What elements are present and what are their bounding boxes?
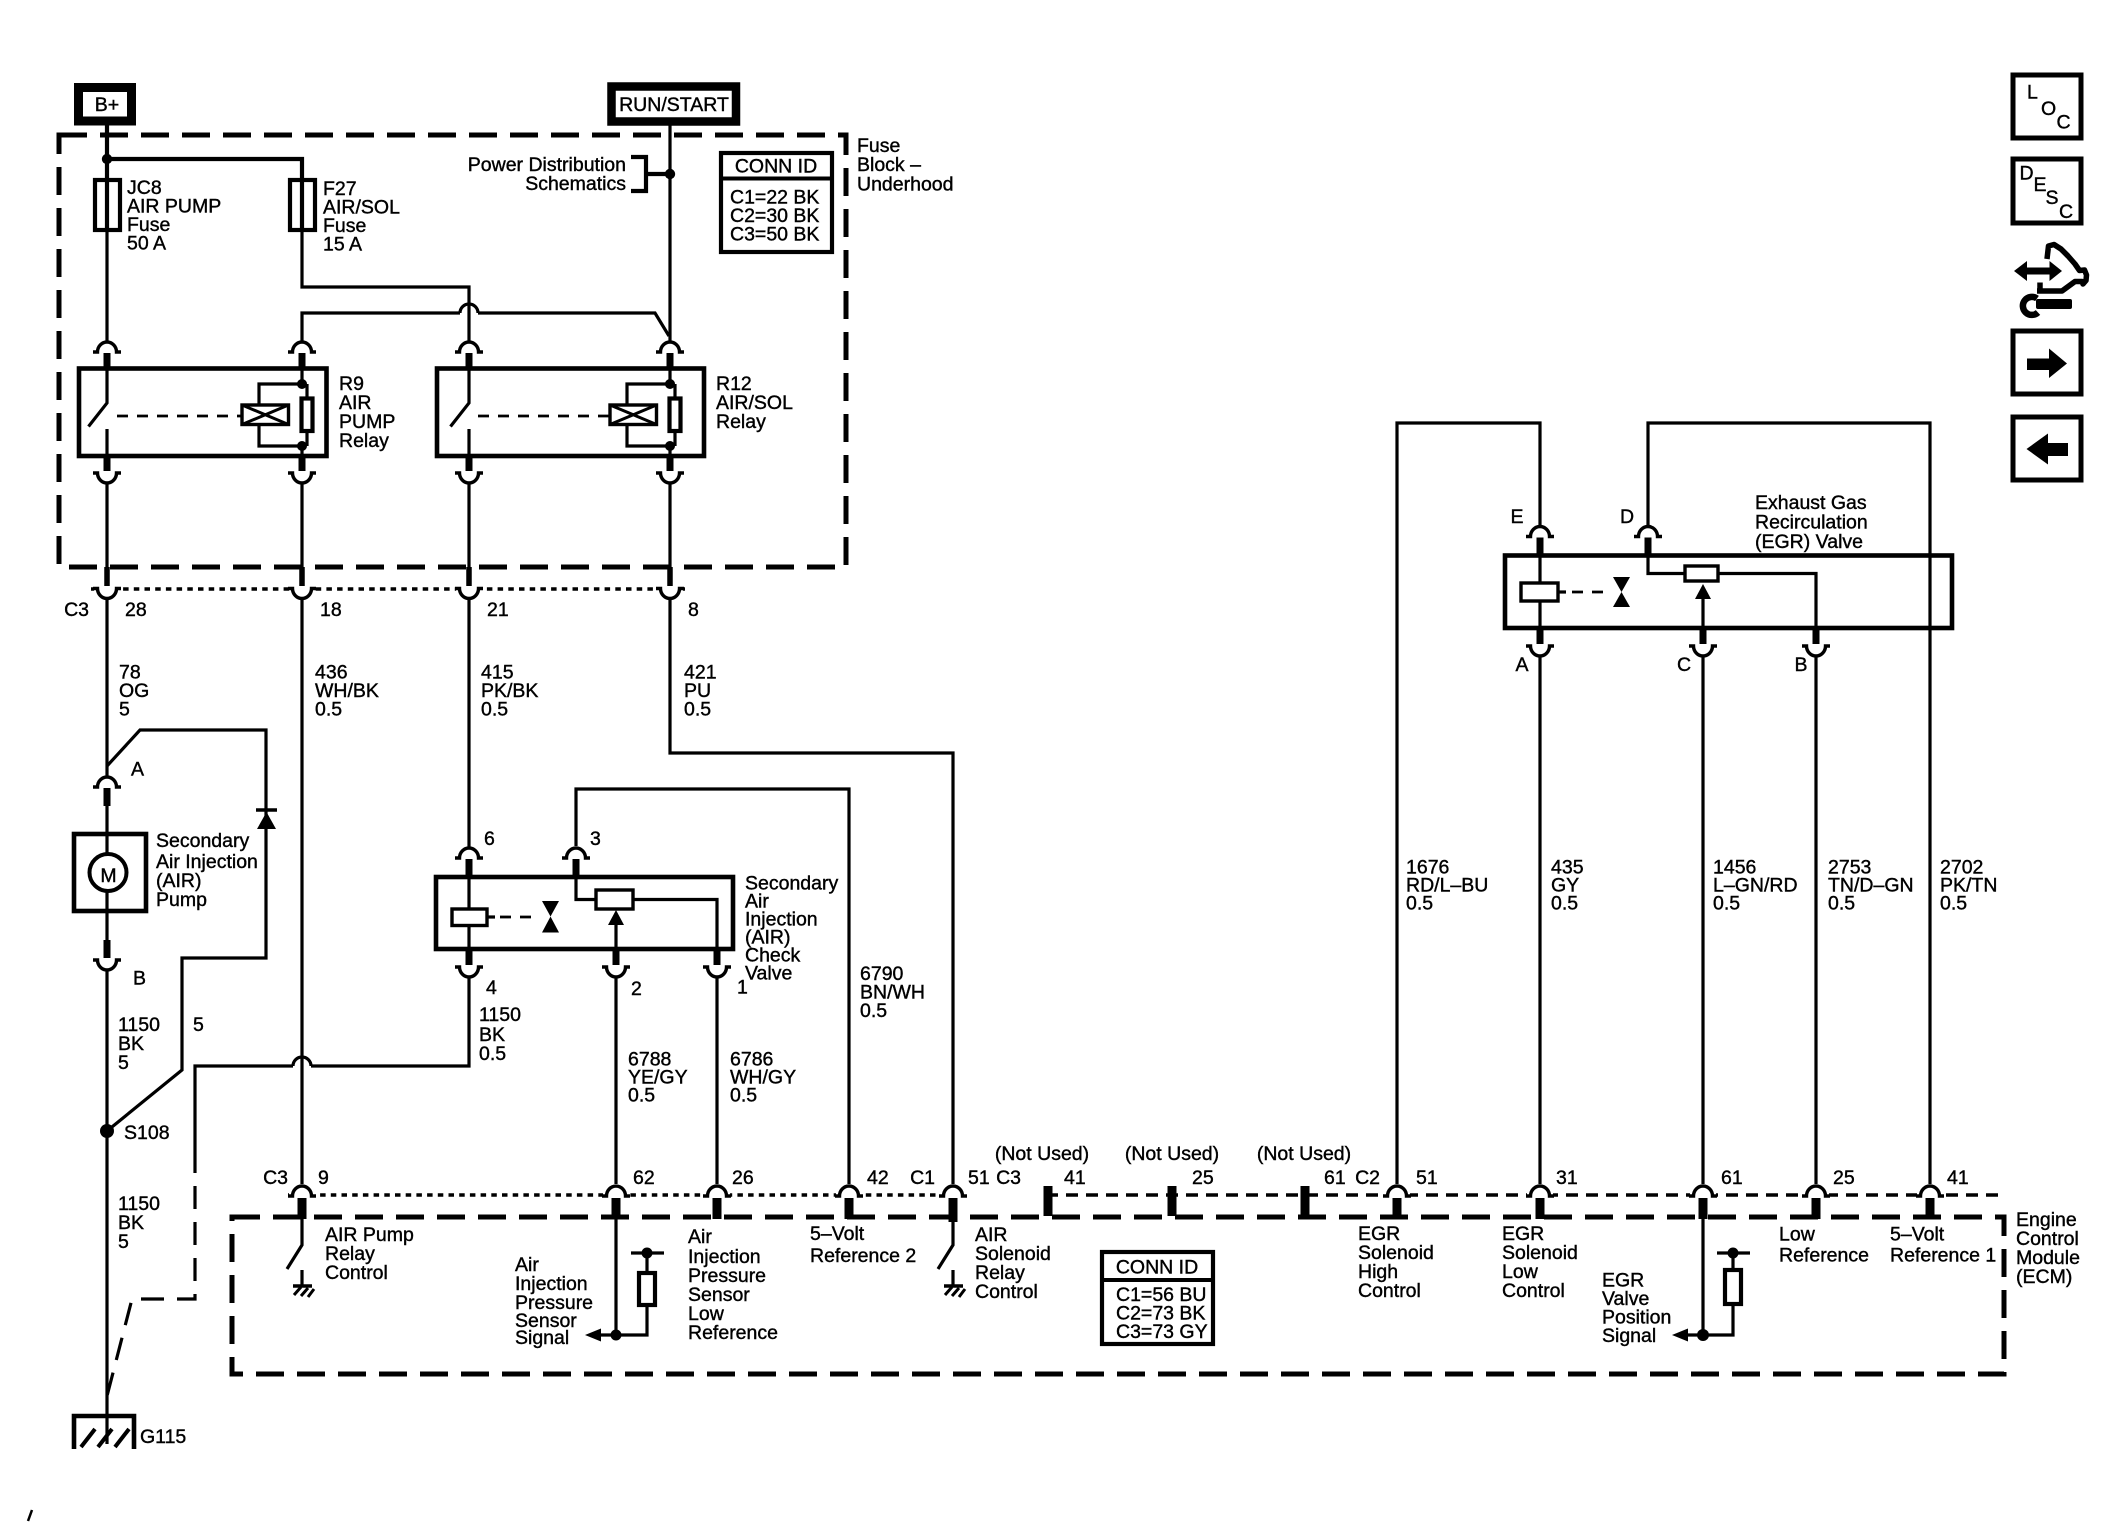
connector pin A of EGR valve (stub and cup) bbox=[1526, 628, 1554, 656]
wire label: 6790 BN/WH 0.5 bbox=[860, 963, 925, 1022]
ECM connector row dotted line bbox=[288, 1193, 965, 1197]
pin labels: C3 41 (Not Used) bbox=[995, 1143, 1089, 1189]
svg-text:0.5: 0.5 bbox=[1828, 893, 1855, 915]
connector pin R12-87 bottom left (stub and cup) bbox=[455, 456, 483, 483]
wire label: 421 PU 0.5 bbox=[684, 662, 717, 721]
svg-text:8: 8 bbox=[688, 599, 699, 621]
svg-text:Underhood: Underhood bbox=[857, 174, 954, 196]
wire label: 2753 TN/D-GN 0.5 bbox=[1828, 857, 1914, 915]
wire: 78 OG down to AIR pump pin A bbox=[105, 599, 108, 776]
svg-text:B: B bbox=[1794, 654, 1807, 676]
ECM unused pin 25 (stub) bbox=[1168, 1186, 1177, 1216]
svg-text:0.5: 0.5 bbox=[1551, 893, 1578, 915]
svg-text:C3: C3 bbox=[64, 599, 89, 621]
wire label: 1150 BK 5 (lower) bbox=[118, 1193, 160, 1253]
dashed link check valve bbox=[500, 916, 538, 919]
wire label: 435 GY 0.5 bbox=[1551, 857, 1584, 915]
connector 21 (stub and cup) bbox=[455, 567, 483, 602]
svg-text:51: 51 bbox=[968, 1167, 990, 1189]
relay R9 AIR PUMP box bbox=[79, 369, 327, 457]
svg-text:31: 31 bbox=[1556, 1167, 1578, 1189]
svg-text:Pump: Pump bbox=[156, 889, 207, 911]
svg-text:62: 62 bbox=[633, 1167, 655, 1189]
svg-text:C3: C3 bbox=[996, 1167, 1021, 1189]
svg-text:(EGR) Valve: (EGR) Valve bbox=[1755, 531, 1863, 553]
wire label: 6786 WH/GY 0.5 bbox=[730, 1049, 796, 1107]
connector C3-28 (stub and cup) bbox=[93, 567, 121, 602]
svg-text:28: 28 bbox=[125, 599, 147, 621]
svg-text:(ECM): (ECM) bbox=[2016, 1266, 2072, 1288]
splice S108 bbox=[100, 1124, 114, 1138]
svg-text:61: 61 bbox=[1721, 1167, 1743, 1189]
wire: EGR pin D up over to ECM pin 41 (2702 PK/TN) bbox=[1648, 423, 1930, 1184]
node: R9 coil junction top bbox=[297, 379, 307, 389]
node: junction power distribution tap bbox=[665, 169, 675, 179]
fuse JC8 AIR PUMP 50 A bbox=[95, 180, 120, 230]
relay coil R12 (box with X) bbox=[610, 405, 657, 425]
connector row C3 dotted line (fuse block bottom) bbox=[91, 587, 686, 591]
check valve solenoid coil bbox=[452, 877, 495, 949]
wire: ground return from check valve pin 4 (1150 BK) with hop over 436 wire bbox=[107, 978, 469, 1396]
svg-text:5: 5 bbox=[193, 1014, 204, 1036]
svg-text:Reference 1: Reference 1 bbox=[1890, 1245, 1996, 1267]
wire: continues right then diagonal to RUN/START wire bbox=[478, 313, 669, 336]
svg-text:50 A: 50 A bbox=[127, 233, 166, 255]
wire label: 1676 RD/L-BU 0.5 bbox=[1406, 857, 1488, 915]
label: Engine Control Module (ECM) bbox=[2016, 1209, 2080, 1288]
svg-text:5: 5 bbox=[118, 1231, 129, 1253]
wire label: 2702 PK/TN 0.5 bbox=[1940, 857, 1997, 915]
connector pin B of AIR pump (stub and cup) bbox=[93, 911, 121, 970]
pin label: 61 (Not Used) bbox=[1257, 1143, 1351, 1189]
svg-text:0.5: 0.5 bbox=[479, 1043, 506, 1065]
svg-text:C: C bbox=[1677, 654, 1691, 676]
svg-text:Signal: Signal bbox=[1602, 1325, 1656, 1347]
ECM internal: AIR Solenoid Relay Control driver (switch to ground) bbox=[938, 1216, 965, 1297]
svg-text:15 A: 15 A bbox=[323, 234, 362, 256]
svg-text:(Not Used): (Not Used) bbox=[1125, 1143, 1219, 1165]
valve symbol (bowtie) EGR bbox=[1613, 577, 1630, 607]
wire label: 6788 YE/GY 0.5 bbox=[628, 1049, 688, 1107]
svg-text:E: E bbox=[1510, 506, 1523, 528]
svg-text:(Not Used): (Not Used) bbox=[1257, 1143, 1351, 1165]
icon: DESC button bbox=[2013, 159, 2081, 223]
svg-text:Control: Control bbox=[1358, 1280, 1421, 1302]
connector pin 4 of check valve (stub and cup) bbox=[455, 949, 483, 977]
label: Low Reference bbox=[1779, 1224, 1869, 1267]
label: F27 AIR/SOL Fuse 15 A bbox=[323, 178, 400, 256]
svg-text:C: C bbox=[2059, 201, 2073, 223]
svg-text:61: 61 bbox=[1324, 1167, 1346, 1189]
svg-text:Air: Air bbox=[688, 1226, 712, 1248]
wire: R9-85 down to connector 18 bbox=[300, 484, 303, 568]
svg-text:A: A bbox=[1515, 654, 1528, 676]
RUN/START power terminal box bbox=[612, 87, 737, 122]
node: R9 coil junction bottom bbox=[297, 441, 307, 451]
svg-text:26: 26 bbox=[732, 1167, 754, 1189]
label: Fuse Block - Underhood bbox=[857, 135, 954, 196]
icon: vehicle double-arrow and wrench bbox=[2014, 245, 2087, 315]
switch blade R12 bbox=[451, 369, 470, 457]
internal wiring R9 coil/resistor bbox=[259, 369, 307, 457]
svg-text:D: D bbox=[1620, 506, 1634, 528]
node: R12 coil junction bottom bbox=[665, 441, 675, 451]
label: R12 AIR/SOL Relay bbox=[716, 373, 793, 433]
label: AIR Pump Relay Control bbox=[325, 1224, 414, 1284]
motor: Secondary Air Injection (AIR) Pump bbox=[74, 834, 146, 911]
wire: JC8 fuse down to R9 relay pin bbox=[105, 229, 108, 341]
ECM connector pin C3-9 (arc and stub) bbox=[288, 1186, 316, 1219]
svg-text:Schematics: Schematics bbox=[525, 173, 626, 195]
connector pin R12-85 bottom right (stub and cup) bbox=[656, 456, 684, 483]
svg-text:Control: Control bbox=[325, 1262, 388, 1284]
resistor R9 internal bbox=[302, 399, 313, 432]
wire: B+ feed down to JC8 fuse bbox=[105, 120, 109, 181]
svg-text:C: C bbox=[2057, 112, 2071, 134]
svg-text:S108: S108 bbox=[124, 1122, 170, 1144]
wire label: 415 PK/BK 0.5 bbox=[481, 662, 538, 721]
stray scan mark bottom left bbox=[28, 1510, 32, 1521]
svg-text:21: 21 bbox=[487, 599, 509, 621]
svg-text:1: 1 bbox=[737, 977, 748, 999]
svg-text:C3=73 GY: C3=73 GY bbox=[1116, 1321, 1208, 1343]
wire: EGR pin C down to ECM pin 61 (1456 L-GN/RD) bbox=[1701, 657, 1704, 1184]
svg-text:A: A bbox=[131, 759, 144, 781]
wire: check valve pin 3 up right and down to ECM pin 42 (6790 BN/WH) bbox=[576, 789, 849, 1184]
svg-text:B: B bbox=[133, 968, 146, 990]
wire: RUN/START ignition feed down to R12 coil pin bbox=[668, 120, 671, 341]
label: 5-Volt Reference 1 bbox=[1890, 1224, 1996, 1267]
connector pin R12-30 top left (arc and stub) bbox=[455, 342, 483, 369]
svg-text:Control: Control bbox=[975, 1281, 1038, 1303]
wire label: 1150 BK 0.5 bbox=[479, 1004, 521, 1065]
label: EGR Solenoid High Control bbox=[1358, 1223, 1434, 1302]
wire: branch to F27 fuse bbox=[107, 159, 302, 181]
svg-text:C3=50 BK: C3=50 BK bbox=[730, 224, 819, 246]
svg-text:5: 5 bbox=[119, 699, 130, 721]
icon: LOC button bbox=[2013, 75, 2081, 138]
svg-text:0.5: 0.5 bbox=[315, 699, 342, 721]
ECM connector pin 41 (arc and stub) bbox=[1916, 1186, 1944, 1219]
potentiometer check valve bbox=[576, 877, 717, 949]
node: junction B+ branch bbox=[102, 154, 112, 164]
label: Secondary Air Injection (AIR) Pump bbox=[156, 830, 258, 911]
wire: EGR pin B down to ECM pin 25 (2753 TN/D-GN) bbox=[1814, 657, 1817, 1184]
svg-text:Signal: Signal bbox=[515, 1327, 569, 1349]
wire: EGR pin A down to ECM pin 31 (435 GY) bbox=[1538, 657, 1541, 1184]
CONN ID table (fuse block) bbox=[721, 153, 832, 252]
connector pin 2 of check valve (stub and cup) bbox=[602, 949, 630, 977]
svg-text:Reference: Reference bbox=[1779, 1245, 1869, 1267]
svg-text:Valve: Valve bbox=[745, 963, 792, 985]
ECM internal: EGR Valve Position Signal input bbox=[1672, 1216, 1750, 1342]
label: R9 AIR PUMP Relay bbox=[339, 373, 395, 452]
connector pin B of EGR valve (stub and cup) bbox=[1802, 628, 1830, 656]
connector pin R9-86 top right (arc and stub) bbox=[288, 342, 316, 369]
wire: R12-85 down to connector 8 bbox=[668, 484, 671, 568]
connector 18 (stub and cup) bbox=[288, 567, 316, 602]
label: Air Injection Pressure Sensor Low Reference bbox=[688, 1226, 778, 1344]
svg-text:51: 51 bbox=[1416, 1167, 1438, 1189]
svg-text:18: 18 bbox=[320, 599, 342, 621]
svg-text:Secondary: Secondary bbox=[156, 830, 249, 852]
svg-text:Reference 2: Reference 2 bbox=[810, 1245, 916, 1267]
svg-text:0.5: 0.5 bbox=[481, 699, 508, 721]
wire label: 78 OG 5 bbox=[119, 662, 149, 721]
label: AIR Solenoid Relay Control bbox=[975, 1224, 1051, 1303]
pin labels: C3 9 bbox=[263, 1167, 329, 1189]
connector pin R9-87 bottom left (stub and cup) bbox=[93, 456, 121, 483]
svg-text:RUN/START: RUN/START bbox=[619, 94, 729, 116]
connector pin R9-85 bottom right (stub and cup) bbox=[288, 456, 316, 483]
svg-text:0.5: 0.5 bbox=[730, 1085, 757, 1107]
wire label: 1150 BK 5 (upper) bbox=[118, 1014, 160, 1074]
svg-text:5: 5 bbox=[118, 1052, 129, 1074]
wire: 415 PK/BK down to check valve pin 6 bbox=[467, 599, 470, 847]
wire: R9 coil feed from RUN/START branch (with hop over F27 wire) bbox=[302, 313, 460, 341]
svg-text:Relay: Relay bbox=[339, 430, 389, 452]
connector pin D of EGR valve (arc and stub) bbox=[1634, 527, 1662, 556]
svg-text:1150: 1150 bbox=[479, 1004, 521, 1026]
svg-text:0.5: 0.5 bbox=[1940, 893, 1967, 915]
wire: check valve pin 1 down to ECM pin 26 (6786 WH/GY) bbox=[715, 978, 718, 1184]
wire label: 436 WH/BK 0.5 bbox=[315, 662, 379, 721]
label: JC8 AIR PUMP Fuse 50 A bbox=[127, 177, 221, 255]
wire: EGR solenoid high control (1676 RD/L-BU) up over to EGR pin E bbox=[1397, 423, 1540, 1184]
wire: R12-87 down to connector 21 bbox=[467, 484, 470, 568]
switch blade R9 bbox=[89, 369, 108, 457]
svg-text:C1: C1 bbox=[910, 1167, 935, 1189]
svg-text:9: 9 bbox=[318, 1167, 329, 1189]
connector pin R12-86 top right (arc and stub) bbox=[656, 342, 684, 369]
label: Secondary Air Injection (AIR) Check Valve bbox=[745, 873, 838, 985]
ECM connector pin 31 (arc and stub) bbox=[1526, 1186, 1554, 1219]
fuse block underhood dashed border bbox=[59, 135, 846, 567]
icon: back arrow button bbox=[2013, 417, 2081, 480]
ground G115 symbol bbox=[74, 1416, 134, 1449]
svg-text:25: 25 bbox=[1833, 1167, 1855, 1189]
node: R12 coil junction top bbox=[665, 379, 675, 389]
wire: R9-87 down to connector C3-28 bbox=[105, 484, 108, 568]
bracket: Power Distribution Schematics reference bbox=[631, 157, 666, 191]
ECM unused pin C3-41 (stub) bbox=[1044, 1186, 1053, 1216]
svg-text:C2: C2 bbox=[1355, 1167, 1380, 1189]
svg-text:(Not Used): (Not Used) bbox=[995, 1143, 1089, 1165]
svg-text:G115: G115 bbox=[140, 1426, 186, 1448]
wire: pump B down to splice S108 and on to ground bbox=[105, 971, 108, 1416]
connector pin 6 of check valve (arc and stub) bbox=[455, 848, 483, 877]
svg-text:C3: C3 bbox=[263, 1167, 288, 1189]
connector pin 1 of check valve (stub and cup) bbox=[703, 949, 731, 977]
potentiometer EGR valve bbox=[1648, 556, 1816, 629]
svg-text:25: 25 bbox=[1192, 1167, 1214, 1189]
B+ power terminal box bbox=[79, 88, 132, 122]
svg-text:CONN ID: CONN ID bbox=[735, 156, 817, 178]
svg-text:B+: B+ bbox=[95, 94, 119, 116]
svg-text:0.5: 0.5 bbox=[1713, 893, 1740, 915]
EGR valve box: Exhaust Gas Recirculation (EGR) Valve bbox=[1505, 556, 1952, 629]
svg-text:0.5: 0.5 bbox=[860, 1000, 887, 1022]
wiper arrow EGR valve bbox=[1695, 584, 1711, 628]
connector pin E of EGR valve (arc and stub) bbox=[1526, 527, 1554, 556]
label: EGR Valve Position Signal bbox=[1602, 1270, 1671, 1348]
connector pin C of EGR valve (stub and cup) bbox=[1689, 628, 1717, 656]
svg-text:41: 41 bbox=[1064, 1167, 1086, 1189]
ECM connector pin 25 (arc and stub) bbox=[1802, 1186, 1830, 1219]
ECM internal: Air Injection Pressure Sensor Signal input bbox=[585, 1216, 664, 1342]
connector pin 3 of check valve (arc and stub) bbox=[562, 848, 590, 877]
pin label: 25 (Not Used) bbox=[1125, 1143, 1219, 1189]
wire label: 1456 L-GN/RD 0.5 bbox=[1713, 857, 1798, 915]
connector pin R9-30 top left (arc and stub) bbox=[93, 342, 121, 369]
dashed actuation link R9 bbox=[117, 415, 242, 418]
CONN ID table (ECM) bbox=[1102, 1252, 1213, 1344]
pin labels: C1 51 bbox=[910, 1167, 990, 1189]
label: Air Injection Pressure Sensor Signal bbox=[515, 1254, 593, 1349]
svg-text:3: 3 bbox=[590, 828, 601, 850]
svg-text:5–Volt: 5–Volt bbox=[810, 1223, 865, 1245]
svg-text:0.5: 0.5 bbox=[628, 1085, 655, 1107]
fuse F27 AIR/SOL 15 A bbox=[290, 180, 315, 230]
svg-text:42: 42 bbox=[867, 1167, 889, 1189]
svg-text:Relay: Relay bbox=[716, 411, 766, 433]
EGR solenoid coil bbox=[1521, 556, 1566, 629]
label: EGR Solenoid Low Control bbox=[1502, 1223, 1578, 1302]
wire: F27 fuse down right and down to R12 switch pin bbox=[302, 229, 469, 341]
svg-text:0.5: 0.5 bbox=[1406, 893, 1433, 915]
dashed actuation link R12 bbox=[478, 415, 610, 418]
wire: diode bypass loop around AIR pump bbox=[107, 730, 266, 1131]
relay coil R9 (box with X) bbox=[242, 405, 289, 425]
ECM connector pin 61 (arc and stub) bbox=[1689, 1186, 1717, 1219]
label: 5-Volt Reference 2 bbox=[810, 1223, 916, 1267]
label: Power Distribution Schematics bbox=[468, 154, 626, 195]
diode (cathode bar and triangle) bbox=[256, 810, 277, 829]
svg-text:0.5: 0.5 bbox=[684, 699, 711, 721]
svg-text:Control: Control bbox=[1502, 1280, 1565, 1302]
ECM connector pin 26 (arc and stub) bbox=[703, 1186, 731, 1219]
wiper arrow check valve bbox=[608, 910, 624, 949]
ECM connector pin C2-51 (arc and stub) bbox=[1383, 1186, 1411, 1219]
ECM internal: AIR Pump Relay Control driver (switch to ground) bbox=[287, 1216, 314, 1297]
svg-text:4: 4 bbox=[486, 977, 497, 999]
svg-text:Reference: Reference bbox=[688, 1322, 778, 1344]
icon: next arrow button bbox=[2013, 331, 2081, 394]
pin labels: C2 51 bbox=[1355, 1167, 1438, 1189]
valve symbol (bowtie) check valve bbox=[542, 901, 559, 933]
svg-text:2: 2 bbox=[631, 978, 642, 1000]
check valve box: Secondary Air Injection (AIR) Check Valve bbox=[436, 877, 733, 949]
svg-text:S: S bbox=[2046, 187, 2059, 209]
ECM connector pin C1-51 (arc and stub) bbox=[939, 1186, 967, 1222]
svg-text:Low: Low bbox=[1779, 1224, 1816, 1246]
dashed link EGR valve bbox=[1572, 591, 1608, 594]
wire: check valve pin 2 down to ECM pin 62 (6788 YE/GY) bbox=[614, 978, 617, 1184]
svg-text:CONN ID: CONN ID bbox=[1116, 1257, 1198, 1279]
svg-text:M: M bbox=[100, 865, 116, 887]
internal wiring R12 coil/resistor bbox=[627, 369, 675, 457]
ECM connector pin 62 (arc and stub) bbox=[602, 1186, 630, 1219]
svg-text:41: 41 bbox=[1947, 1167, 1969, 1189]
svg-text:L: L bbox=[2027, 82, 2038, 104]
svg-text:5–Volt: 5–Volt bbox=[1890, 1224, 1945, 1246]
relay R12 AIR/SOL box bbox=[437, 369, 704, 457]
ECM dashed box bbox=[232, 1217, 2004, 1374]
wire hop over vertical at x469 bbox=[460, 304, 478, 313]
connector pin A of AIR pump (arc and stub) bbox=[93, 777, 121, 834]
svg-text:D: D bbox=[2020, 163, 2034, 185]
ECM unused pin 61 (stub) bbox=[1301, 1186, 1310, 1216]
connector 8 (stub and cup) bbox=[656, 567, 684, 602]
ECM connector pin 42 (arc and stub) bbox=[835, 1186, 863, 1219]
pin labels: C3 28 18 21 8 bbox=[64, 599, 699, 621]
wire: 436 WH/BK down to ECM pin 9 bbox=[300, 599, 303, 1184]
connector row dashed line (C3/C2 section) bbox=[1046, 1193, 2004, 1197]
label: Exhaust Gas Recirculation (EGR) Valve bbox=[1755, 492, 1868, 553]
svg-text:6: 6 bbox=[484, 828, 495, 850]
wire: 421 PU down right and down to ECM pin 51 C1 bbox=[670, 599, 953, 1184]
svg-text:O: O bbox=[2041, 98, 2056, 120]
resistor R12 internal bbox=[670, 399, 681, 432]
